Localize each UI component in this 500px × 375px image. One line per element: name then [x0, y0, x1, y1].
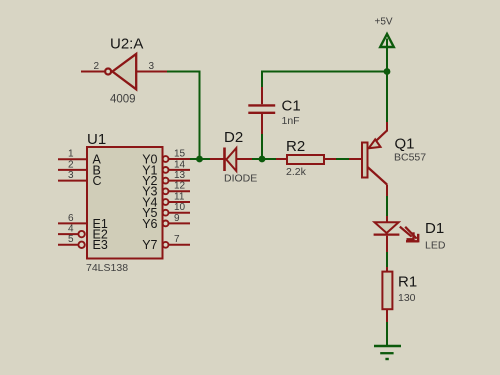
svg-text:3: 3	[149, 61, 155, 72]
capacitor C1	[248, 87, 300, 134]
wire: C1 bottom lead	[261, 134, 263, 159]
svg-text:13: 13	[174, 170, 186, 181]
svg-text:DIODE: DIODE	[224, 173, 257, 185]
U1 pin 11 Y4	[142, 191, 190, 209]
svg-text:Y6: Y6	[142, 217, 157, 231]
svg-text:+5V: +5V	[375, 17, 393, 28]
power +5V symbol	[375, 17, 394, 48]
svg-text:11: 11	[174, 191, 185, 202]
svg-text:5: 5	[68, 234, 74, 245]
inverter gate U2:A (4009)	[81, 36, 167, 106]
svg-text:C: C	[93, 174, 102, 188]
U1 pin 6 E1	[58, 213, 108, 231]
U1 pin 14 Y1	[142, 159, 190, 177]
svg-text:2: 2	[93, 61, 99, 72]
wire: Y0 pin to diode	[190, 158, 210, 160]
svg-text:BC557: BC557	[394, 152, 426, 164]
svg-text:U1: U1	[87, 131, 106, 148]
U1 pin 4 E2	[58, 224, 108, 242]
U1 pin 12 Y3	[142, 181, 190, 199]
wire: +5V symbol stem	[386, 39, 388, 72]
wire: diode to R2	[252, 158, 277, 160]
wire: C1 top to +5V rail	[262, 72, 387, 88]
node: junction Y0/inverter/diode	[196, 156, 203, 163]
node: junction C1/+5V rail	[384, 68, 391, 75]
svg-text:Y7: Y7	[142, 238, 157, 252]
wire: inverter output to vertical drop	[166, 72, 200, 160]
svg-text:D2: D2	[224, 129, 243, 146]
U1 pin 3 C	[58, 170, 102, 188]
U1 pin 13 Y2	[142, 170, 190, 188]
wire: R1 to ground	[386, 322, 388, 346]
U1 74LS138	[86, 131, 163, 274]
svg-text:2.2k: 2.2k	[286, 166, 307, 178]
svg-text:D1: D1	[425, 220, 444, 237]
svg-text:10: 10	[174, 202, 186, 213]
svg-text:7: 7	[174, 234, 180, 245]
svg-text:14: 14	[174, 159, 186, 170]
svg-text:E3: E3	[93, 238, 108, 252]
svg-text:C1: C1	[282, 98, 301, 115]
ground	[374, 346, 401, 359]
svg-text:2: 2	[68, 159, 74, 170]
LED D1	[374, 216, 446, 252]
U1 pin 9 Y6	[142, 213, 190, 231]
U1 pin 2 B	[58, 159, 101, 177]
svg-text:R1: R1	[398, 274, 417, 291]
svg-text:LED: LED	[425, 240, 446, 252]
U1 pin 5 E3	[58, 234, 108, 252]
svg-text:9: 9	[174, 213, 180, 224]
svg-text:R2: R2	[286, 138, 305, 155]
node: junction diode/C1/R2	[259, 156, 266, 163]
U1 pin 7 Y7	[142, 234, 190, 252]
svg-text:130: 130	[398, 292, 416, 304]
svg-text:15: 15	[174, 149, 186, 160]
wire: LED to R1	[386, 252, 388, 267]
U1 pin 15 Y0	[142, 149, 190, 167]
svg-text:74LS138: 74LS138	[86, 262, 128, 274]
wire: rail down to Q1 emitter	[386, 72, 388, 124]
U1 pin 1 A	[58, 149, 102, 167]
transistor Q1 BC557	[349, 122, 426, 196]
svg-text:1: 1	[68, 149, 74, 160]
wire: Q1 collector to LED	[386, 196, 388, 216]
wire: R2 to Q1 base	[336, 158, 349, 160]
svg-text:Q1: Q1	[395, 136, 415, 153]
svg-text:6: 6	[68, 213, 74, 224]
svg-text:U2:A: U2:A	[110, 36, 143, 53]
diode D2	[210, 129, 257, 185]
resistor R2	[276, 138, 336, 178]
svg-text:4009: 4009	[110, 94, 136, 106]
U1 pin 10 Y5	[142, 202, 190, 220]
svg-text:4: 4	[68, 224, 74, 235]
svg-text:1nF: 1nF	[282, 115, 300, 127]
resistor R1	[382, 267, 417, 322]
svg-text:12: 12	[174, 181, 186, 192]
svg-text:3: 3	[68, 170, 74, 181]
